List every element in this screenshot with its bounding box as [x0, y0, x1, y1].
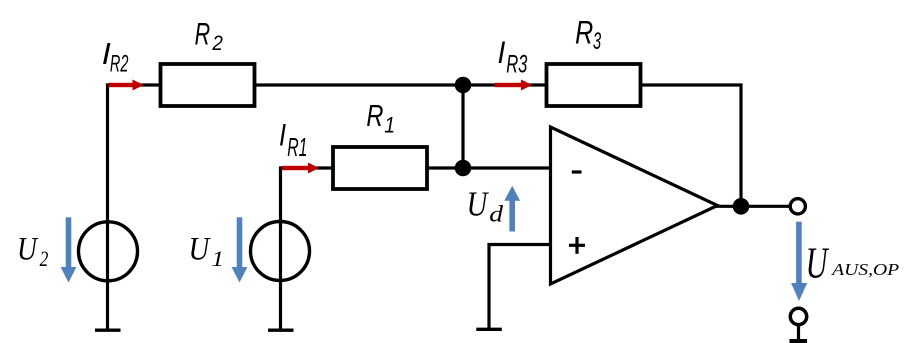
label IR1: [279, 118, 307, 162]
label R1: [366, 98, 395, 138]
wire: top-left horizontal from U2 branch to R2: [108, 83, 163, 86]
svg-text:3: 3: [593, 28, 601, 54]
svg-text:U: U: [188, 231, 210, 267]
svg-text:R1: R1: [287, 133, 307, 162]
svg-text:R3: R3: [506, 52, 527, 79]
wire: U1 branch to R1: [281, 166, 336, 169]
current arrow IR3 (red): [495, 80, 532, 91]
label UAUS,OP: [806, 239, 900, 288]
voltage arrow UAUS,OP (blue, down): [791, 222, 807, 301]
op-amp minus sign: [572, 170, 582, 173]
ground: output terminal: [790, 339, 808, 343]
svg-text:I: I: [279, 118, 286, 153]
wire: U1 vertical branch: [279, 166, 282, 330]
current arrow IR2 (red): [109, 80, 144, 91]
resistor R2: [161, 64, 255, 106]
voltage source U2: [79, 222, 138, 281]
svg-text:R2: R2: [110, 51, 129, 78]
current arrow IR1 (red): [282, 163, 319, 174]
svg-text:R: R: [195, 16, 211, 51]
wire: node A to node B vertical: [461, 85, 464, 168]
svg-text:1: 1: [211, 247, 224, 271]
resistor R3: [547, 64, 641, 106]
voltage source U1: [251, 222, 310, 281]
wire: U2 vertical branch: [106, 83, 109, 330]
svg-text:AUS,OP: AUS,OP: [831, 260, 899, 278]
voltage arrow Ud (blue, up): [504, 186, 520, 232]
node A (top junction): [455, 77, 472, 94]
label R2: [195, 16, 223, 55]
voltage arrow U1 (blue, down): [232, 217, 248, 282]
ground: U2 branch: [95, 329, 121, 332]
svg-text:d: d: [489, 202, 503, 227]
terminal: bottom (open circle): [790, 308, 806, 324]
svg-text:I: I: [498, 36, 506, 71]
label U2: [17, 230, 48, 271]
wire: R3 to feedback corner down to output: [641, 85, 742, 206]
voltage arrow U2 (blue, down): [61, 217, 77, 282]
ground: U1 branch: [268, 329, 294, 332]
svg-text:2: 2: [211, 32, 222, 55]
label Ud: [467, 184, 504, 227]
terminal: output (open circle): [790, 199, 805, 214]
node B (inverting input junction): [455, 160, 472, 177]
label IR3: [498, 36, 528, 79]
wire: op-amp noninverting input to ground: [489, 245, 552, 330]
svg-text:R: R: [575, 15, 593, 51]
svg-text:U: U: [17, 230, 39, 267]
wire: node A to R3: [463, 83, 548, 86]
op-amp: [551, 127, 718, 284]
op-amp plus sign: [569, 237, 585, 254]
label IR2: [102, 36, 129, 78]
svg-text:1: 1: [384, 114, 395, 138]
label U1: [188, 231, 224, 272]
svg-text:U: U: [806, 239, 830, 288]
wire: R1 to node B and op-amp inverting input: [427, 166, 552, 169]
svg-text:2: 2: [40, 247, 49, 272]
node C (output junction): [733, 198, 750, 215]
wire: op-amp output to terminal: [715, 205, 790, 208]
svg-text:R: R: [366, 98, 383, 133]
label R3: [575, 15, 601, 54]
wire: R2 to node A: [255, 83, 464, 86]
svg-text:U: U: [467, 184, 489, 224]
ground: noninverting branch: [476, 328, 502, 331]
wire: bottom terminal stem: [797, 325, 800, 339]
resistor R1: [333, 147, 427, 189]
